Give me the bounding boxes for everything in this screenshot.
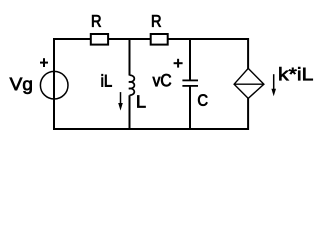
resistor R2 box (151, 34, 168, 45)
plus sign of Vg (40, 58, 48, 67)
label Vg (10, 78, 32, 94)
wire left branch through source Vg (53, 38, 55, 130)
wire dependent source branch top (247, 38, 249, 69)
dependent source diamond (234, 68, 264, 98)
label iL (102, 74, 112, 86)
wire capacitor branch bottom (189, 86, 191, 130)
wire dependent source branch bottom (247, 98, 249, 130)
plus sign of vC (174, 59, 183, 68)
current arrow k*iL (271, 74, 276, 96)
label vC (153, 74, 171, 86)
label k*iL (279, 67, 312, 80)
wire inductor branch bottom (129, 95, 131, 130)
label R2 (152, 15, 161, 27)
wire capacitor branch top (189, 38, 191, 80)
current arrow iL (118, 92, 123, 111)
wire inductor branch top (129, 38, 131, 76)
inductor L coil (129, 75, 135, 95)
label R1 (92, 15, 101, 27)
wire top (node between R1 input corner and dependent source corner) (53, 38, 249, 40)
label C (198, 94, 207, 105)
wire bottom (ground return) (53, 128, 249, 130)
capacitor C bottom plate (182, 85, 198, 87)
resistor R1 box (91, 34, 108, 45)
label L (137, 95, 145, 107)
capacitor C top plate (182, 79, 198, 81)
voltage source Vg circle (40, 71, 68, 99)
